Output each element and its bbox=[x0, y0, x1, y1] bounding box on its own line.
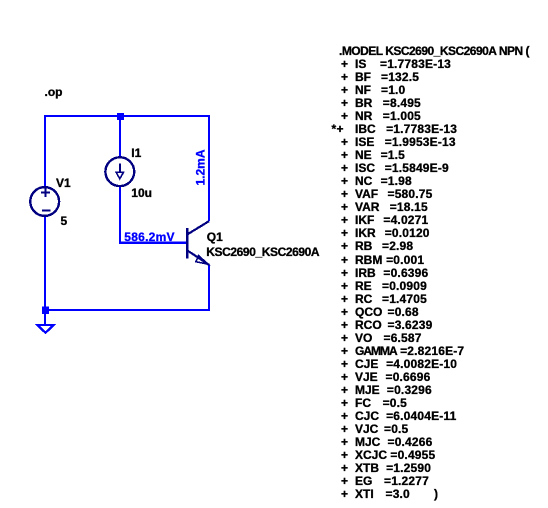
model parameter line IRB bbox=[0, 266, 1, 268]
model parameter line RBM bbox=[0, 253, 1, 255]
model parameter line IKF bbox=[0, 213, 1, 215]
model parameter line QCO bbox=[0, 305, 1, 307]
spice directive .op bbox=[45, 86, 63, 99]
model parameter line ISC bbox=[0, 161, 1, 163]
model parameter line NF bbox=[0, 83, 1, 85]
model parameter line RC bbox=[0, 292, 1, 294]
label I1 bbox=[131, 147, 141, 160]
node voltage annotation 586.2mV bbox=[124, 231, 174, 244]
spice directive .MODEL text block bbox=[339, 45, 529, 58]
model parameter line VAF bbox=[0, 187, 1, 189]
voltage source V1 circle bbox=[30, 187, 59, 216]
junction node at bottom rail / ground bbox=[42, 307, 49, 314]
model parameter line GAMMA bbox=[0, 344, 1, 346]
wire I1 branch lower (I1 bottom to base corner) bbox=[119, 186, 121, 243]
value label 5 bbox=[61, 215, 68, 228]
label KSC2690_KSC2690A bbox=[206, 246, 319, 259]
model parameter line EG bbox=[0, 474, 1, 476]
model parameter line FC bbox=[0, 396, 1, 398]
model parameter line XTB bbox=[0, 461, 1, 463]
label V1 bbox=[56, 177, 71, 190]
model parameter line IS bbox=[0, 57, 1, 59]
model parameter line CJE bbox=[0, 357, 1, 359]
model parameter line VO bbox=[0, 331, 1, 333]
model parameter line XTI bbox=[0, 487, 1, 489]
transistor Q1 emitter lead bbox=[188, 251, 209, 265]
I1 arrow shaft bbox=[119, 164, 121, 173]
model parameter line VAR bbox=[0, 200, 1, 202]
model parameter line BR bbox=[0, 96, 1, 98]
model parameter line IKR bbox=[0, 226, 1, 228]
model parameter line NR bbox=[0, 109, 1, 111]
wire emitter rail (Q1 emitter to bottom rail) bbox=[208, 265, 210, 312]
I1 arrow head bbox=[116, 172, 123, 178]
current annotation 1.2mA bbox=[195, 149, 208, 185]
current source I1 circle bbox=[105, 157, 134, 186]
wire left rail lower (V1 bottom to bottom rail) bbox=[44, 216, 46, 311]
model parameter line NC bbox=[0, 174, 1, 176]
label Q1 bbox=[207, 231, 223, 244]
wire bottom rail bbox=[45, 309, 210, 311]
wire I1 branch upper (junction to I1 top) bbox=[119, 116, 121, 158]
wire right rail (top rail to Q1 collector) bbox=[208, 115, 210, 221]
value label 10u bbox=[131, 187, 152, 200]
transistor Q1 collector lead bbox=[188, 221, 209, 234]
model parameter line ISE bbox=[0, 135, 1, 137]
junction node at top rail / I1 branch bbox=[117, 113, 124, 120]
wire base horizontal (corner to Q1 base) bbox=[119, 241, 187, 243]
model parameter line BF bbox=[0, 70, 1, 72]
wire left rail upper (top rail to V1 top) bbox=[44, 115, 46, 188]
V1 minus sign bbox=[42, 210, 51, 212]
wire ground stem bbox=[44, 310, 46, 325]
model parameter line VJE bbox=[0, 370, 1, 372]
ground symbol bbox=[37, 325, 53, 333]
model parameter line XCJC bbox=[0, 448, 1, 450]
model parameter line IBC bbox=[0, 122, 1, 124]
model parameter line VJC bbox=[0, 422, 1, 424]
V1 plus sign bbox=[41, 188, 50, 197]
model parameter line CJC bbox=[0, 409, 1, 411]
wire top rail bbox=[44, 115, 210, 117]
model parameter line MJC bbox=[0, 435, 1, 437]
model parameter line RCO bbox=[0, 318, 1, 320]
model parameter line NE bbox=[0, 148, 1, 150]
transistor Q1 base bar bbox=[186, 228, 188, 259]
transistor Q1 emitter arrow head bbox=[196, 256, 208, 265]
model parameter line RB bbox=[0, 239, 1, 241]
model parameter line RE bbox=[0, 279, 1, 281]
model parameter line MJE bbox=[0, 383, 1, 385]
